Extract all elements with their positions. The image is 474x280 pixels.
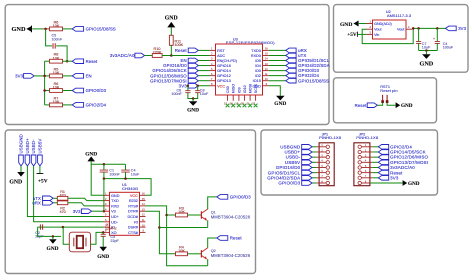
node junction bus/R5: [43, 75, 46, 78]
svg-text:EN(CH-PD): EN(CH-PD): [217, 59, 238, 63]
svg-text:ADC: ADC: [217, 54, 225, 58]
wire Q2 emitter down: [207, 259, 209, 266]
svg-text:GND: GND: [420, 60, 434, 67]
svg-text:GND: GND: [9, 180, 22, 186]
svg-text:Reset pin: Reset pin: [380, 88, 397, 93]
svg-text:10uF: 10uF: [422, 46, 431, 50]
wire Q2 collector to Reset flag: [208, 238, 217, 248]
svg-text:100nF: 100nF: [52, 37, 63, 41]
wire R6 to GPIO0 flag: [63, 90, 73, 92]
wire Q1 emitter down: [207, 220, 209, 227]
svg-text:Reset: Reset: [230, 236, 243, 241]
wire 3V3 bus vertical: [44, 61, 46, 105]
svg-text:3V3: 3V3: [390, 175, 399, 180]
svg-text:3V3: 3V3: [458, 26, 466, 31]
svg-text:IO2: IO2: [255, 74, 261, 78]
U2 pin 4 Vout right: [406, 28, 412, 30]
net label USBD+ (flag): [25, 155, 30, 166]
wire +5V to Vin: [357, 33, 366, 35]
svg-text:+5V: +5V: [347, 32, 357, 38]
svg-text:GND: GND: [165, 16, 178, 22]
wire R2 to RXD: [68, 203, 104, 206]
net label GPIO4/D2/SDA: [286, 63, 296, 68]
wire R3 to Q1 base: [188, 214, 202, 216]
net label uRX: [286, 48, 296, 53]
ground GND (left of crystal): [53, 235, 61, 237]
net label GPIO0/D3 (esp): [286, 68, 296, 73]
svg-text:USBGND: USBGND: [19, 134, 24, 153]
svg-text:RXD0: RXD0: [251, 54, 261, 58]
svg-text:PINHD-1X8: PINHD-1X8: [356, 135, 379, 140]
svg-text:PINHD-1X8: PINHD-1X8: [319, 135, 342, 140]
U3 right pins 9-16: [263, 49, 269, 51]
wire ADC node to ESP pin 2: [171, 55, 209, 57]
svg-text:uRX: uRX: [32, 200, 41, 205]
svg-text:3v3ADC/A0: 3v3ADC/A0: [110, 53, 135, 58]
svg-text:GPIO12: GPIO12: [217, 74, 231, 78]
svg-text:Vin: Vin: [374, 33, 379, 37]
ground flag GND (JP2 pin 8): [403, 180, 408, 186]
svg-text:GPIO15/D8/SS: GPIO15/D8/SS: [298, 78, 329, 83]
wire Q1 emitter line: [159, 227, 207, 229]
node junction C5/Reset: [66, 60, 69, 63]
svg-text:DTR#: DTR#: [128, 210, 139, 214]
wire USBGND down: [20, 166, 22, 172]
wire JP2 pin 8 to GND: [370, 182, 403, 184]
net label USBGND (flag): [19, 155, 24, 166]
node junction GND/C5: [44, 28, 47, 31]
wire EN flag to pin 3: [198, 60, 209, 62]
wire RST1 pin2 to GND: [387, 103, 396, 105]
wire XI net: [41, 226, 104, 228]
node junction C1 bottom / V3 branch: [103, 177, 106, 180]
svg-text:MISO: MISO: [232, 84, 236, 93]
node junction C8/VCC wire: [196, 85, 199, 88]
net label GPIO15/D8/SS: [72, 27, 83, 32]
wire crystal pin 2 to XO: [91, 232, 104, 244]
net label Reset (box D): [217, 236, 228, 241]
wire uRX to R2: [53, 202, 57, 204]
svg-text:MMBT3904-C20526: MMBT3904-C20526: [211, 253, 251, 258]
U1 right pins 9-16: [140, 194, 146, 196]
node junction DTR/emitter line: [158, 226, 161, 229]
U2 pin 2 Vout left: [367, 28, 373, 30]
svg-text:100nF: 100nF: [171, 92, 182, 96]
wire R5 to EN flag: [63, 75, 73, 77]
svg-text:UD-: UD-: [111, 220, 118, 224]
wire GPIO16 flag to pin 4: [198, 65, 209, 67]
wire R11 to ADC node: [170, 45, 172, 55]
wire Vout pin2 loop to output: [362, 28, 413, 43]
svg-text:GND: GND: [401, 103, 413, 109]
section box E (pin headers section): [261, 130, 438, 195]
U2 pin 1 GND(ADJ): [367, 23, 373, 25]
svg-text:GPIO0/D3: GPIO0/D3: [230, 194, 251, 199]
node junction XO / C3: [102, 231, 105, 234]
wire Reset flag to RST pin: [198, 49, 209, 51]
svg-text:AMS1117-3.3: AMS1117-3.3: [387, 13, 411, 18]
svg-text:GND: GND: [47, 246, 59, 252]
svg-text:GND: GND: [97, 254, 109, 260]
wire R6 to GPIO15 flag: [63, 28, 73, 30]
wire VCC riser: [0, 0, 1, 1]
ground GND (USB): [17, 172, 25, 177]
svg-text:CH340G: CH340G: [122, 186, 138, 191]
wire Reset flag to RST1 pin1: [377, 103, 382, 105]
wire 3V3 flag to VCC pin 8: [198, 85, 209, 87]
svg-text:100nF: 100nF: [109, 172, 120, 176]
node junction output/C4: [436, 27, 439, 30]
svg-text:100K: 100K: [175, 43, 184, 47]
wire V3 branch down: [103, 179, 105, 212]
svg-text:22pF: 22pF: [110, 239, 119, 243]
wire C2 to ground rail: [38, 226, 41, 228]
net label GPIO2/D4 (esp): [286, 73, 296, 78]
net label EN (ladder): [72, 74, 83, 79]
node junction output/loop: [412, 27, 415, 30]
wire R4 to Q2 base: [188, 253, 202, 255]
node junction cap rail: [425, 49, 428, 52]
section box D (USB-serial section): [5, 130, 255, 274]
U1 left pins 1-8: [104, 194, 110, 196]
svg-text:VCC: VCC: [217, 84, 225, 88]
svg-text:DSR#: DSR#: [128, 226, 139, 230]
U3 left pins 1-8: [210, 49, 216, 51]
wire GPIO14 flag to pin 5: [198, 70, 209, 72]
ground GND (ESP pin 9): [269, 86, 281, 96]
section box C (reset pin section): [334, 78, 437, 123]
net labels JP2 right: [378, 145, 388, 150]
section box A (main MCU section): [5, 5, 329, 125]
net label Reset (ladder): [72, 59, 83, 64]
svg-text:V3: V3: [111, 210, 116, 214]
ground GND (regulator caps): [425, 51, 427, 55]
svg-text:10uF: 10uF: [131, 172, 140, 176]
svg-text:DCD#: DCD#: [128, 215, 139, 219]
svg-text:Vout: Vout: [374, 28, 381, 32]
svg-text:Reset: Reset: [175, 48, 188, 53]
svg-text:GND: GND: [111, 194, 120, 198]
svg-text:GND: GND: [187, 107, 199, 113]
svg-text:100uF: 100uF: [443, 46, 454, 50]
wire GND to R11: [170, 27, 172, 35]
svg-text:GPIO2/D4: GPIO2/D4: [86, 102, 107, 107]
net label USBD- (flag): [31, 155, 36, 166]
resistor R11 100K: [169, 35, 173, 45]
node junction cap ground: [192, 97, 195, 100]
net label GPIO2/D4 (ladder): [72, 103, 83, 108]
svg-text:12MHz: 12MHz: [105, 227, 117, 231]
net label uTX: [286, 53, 296, 58]
svg-text:3V3: 3V3: [73, 209, 81, 214]
wire capacitor ground rail: [419, 50, 438, 52]
svg-text:Reset: Reset: [86, 59, 98, 64]
net label GPIO0/D3 (ladder): [72, 88, 83, 93]
node junction bus/R6b: [43, 89, 46, 92]
wire GND rail (top): [91, 161, 125, 164]
svg-text:RST: RST: [217, 49, 225, 53]
wires U3 right pins to flags: [269, 49, 286, 51]
wire crystal pin 1 to XI: [63, 227, 69, 244]
svg-text:TXD: TXD: [111, 199, 119, 203]
ground GND (below C3): [99, 247, 107, 252]
node junction V3 wire: [103, 210, 106, 213]
wire uTX to R1: [53, 197, 57, 199]
wire flag to R10: [145, 55, 153, 57]
svg-text:Reset: Reset: [355, 103, 368, 108]
svg-text:470: 470: [60, 210, 66, 214]
wire DTR# down: [146, 211, 176, 254]
net label GPIO0/D3 (box D): [217, 195, 228, 200]
net label GPIO15/D8/SS (esp): [286, 78, 296, 83]
svg-text:SCLK: SCLK: [254, 83, 258, 93]
wire USB5V down: [39, 166, 41, 174]
svg-text:Vout: Vout: [397, 28, 404, 32]
wire R10 to ADC junction: [162, 55, 171, 57]
svg-text:EN: EN: [86, 73, 92, 78]
svg-text:VCC: VCC: [130, 194, 138, 198]
svg-text:RI: RI: [134, 220, 138, 224]
net label GPIO5/D1/SCL: [286, 58, 296, 63]
node junction C6/VCC wire: [187, 85, 190, 88]
svg-text:UD+: UD+: [111, 215, 119, 219]
svg-text:CS0: CS0: [226, 86, 230, 93]
wire GND left rail to pin1: [91, 164, 103, 195]
svg-text:GND: GND: [340, 22, 352, 28]
wire GND flag to pin 1: [359, 23, 367, 25]
wire U2 output to 3V3 flag: [412, 27, 445, 29]
wire USBD+ to UD+: [27, 166, 103, 217]
resistor R2 470: [0, 0, 1, 1]
svg-text:USBD-: USBD-: [31, 139, 36, 154]
svg-text:GPIO0/D3: GPIO0/D3: [86, 88, 107, 93]
U2 pin 3 Vin: [367, 33, 373, 35]
U3 bottom pins 17-22 with no-connect marks: [227, 95, 229, 101]
svg-text:USBD+: USBD+: [25, 138, 30, 154]
wire R8 to Reset flag: [63, 60, 73, 62]
svg-text:IO4: IO4: [255, 64, 261, 68]
node junction C1 top: [103, 163, 106, 166]
svg-text:GPIO14: GPIO14: [217, 69, 231, 73]
svg-text:RTS#: RTS#: [128, 204, 139, 208]
svg-text:IO9: IO9: [237, 87, 241, 93]
section box B (power regulator section): [334, 5, 469, 73]
svg-text:GPIO16: GPIO16: [217, 64, 231, 68]
power flag 3V3 (regulator output): [445, 26, 456, 31]
wire R3 input: [167, 214, 176, 216]
svg-text:IO10: IO10: [243, 85, 247, 93]
node junction C4 bottom: [124, 177, 127, 180]
wire GPIO12 flag to pin 6: [198, 75, 209, 77]
wire Q1 collector to GPIO0 flag: [208, 197, 217, 209]
svg-text:3V3: 3V3: [15, 74, 24, 79]
wire RTS# to R3 node: [146, 206, 208, 266]
svg-text:RXD: RXD: [111, 204, 119, 208]
wire 3V3 to bus: [34, 75, 44, 77]
ground flag GND (box C): [396, 102, 401, 108]
svg-text:IO15: IO15: [253, 79, 261, 83]
svg-text:TXD0: TXD0: [251, 49, 261, 53]
svg-text:CTS#: CTS#: [128, 231, 139, 235]
svg-text:GPIO15/D8/SS: GPIO15/D8/SS: [86, 26, 116, 31]
wire 3V3 flag to V3 pin: [92, 210, 104, 212]
svg-text:GND(ADJ): GND(ADJ): [374, 22, 392, 26]
wire VCC rail below caps: [104, 179, 151, 196]
svg-text:GND: GND: [12, 26, 26, 33]
svg-text:R232: R232: [129, 199, 138, 203]
svg-text:GND: GND: [274, 101, 286, 107]
svg-text:+5V: +5V: [38, 178, 48, 184]
node junction RTS/R3: [165, 214, 168, 217]
svg-text:IO0: IO0: [255, 69, 261, 73]
svg-text:GPIO13: GPIO13: [217, 79, 231, 83]
node junction R10/R11/ADC: [170, 54, 173, 57]
svg-text:IO5: IO5: [255, 59, 261, 63]
svg-text:USB5V: USB5V: [37, 139, 42, 154]
node junction output/C7: [417, 27, 420, 30]
wire R1 to TXD: [68, 198, 104, 200]
wire USBD- to UD-: [34, 166, 104, 222]
node junction XI / crystal: [62, 226, 65, 229]
svg-text:MOSI: MOSI: [249, 84, 253, 93]
wire GND to R6: [32, 28, 43, 30]
svg-text:GND: GND: [408, 181, 420, 187]
wire GPIO13 flag to pin 7: [198, 80, 209, 82]
svg-text:10uF: 10uF: [200, 92, 209, 96]
svg-text:MMBT3904-C20526: MMBT3904-C20526: [211, 214, 251, 219]
svg-text:GPIO0/D3: GPIO0/D3: [278, 181, 300, 186]
wire R7 to GPIO2 flag: [63, 104, 73, 106]
net label USB5V (flag): [38, 155, 43, 166]
ground GND (below C6/C8): [192, 99, 194, 102]
